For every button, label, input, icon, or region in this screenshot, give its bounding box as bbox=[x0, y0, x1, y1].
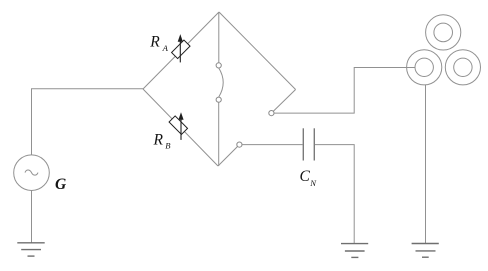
ground middle bbox=[341, 244, 368, 258]
wire bridge edge top-right bbox=[219, 12, 296, 90]
wire bridge edge bottom-left (through R_B) bbox=[143, 89, 218, 166]
wire bridge edge top-left (through R_A) bbox=[143, 12, 219, 89]
cable specimen ring left (core under test) bbox=[407, 50, 442, 85]
wire from cable sheath ring to right ground bbox=[425, 85, 427, 244]
wire from right terminal to cable core bbox=[274, 68, 415, 114]
label C_N bbox=[300, 168, 318, 188]
wire stub from bridge bottom vertex bbox=[218, 145, 239, 166]
wire stub from bridge right vertex bbox=[271, 90, 295, 114]
ground right bbox=[412, 244, 439, 258]
svg-text:G: G bbox=[55, 176, 67, 193]
svg-text:B: B bbox=[165, 141, 171, 151]
svg-text:R: R bbox=[153, 131, 164, 148]
svg-text:N: N bbox=[309, 178, 317, 188]
resistor R_B (variable, in bridge bottom-left arm) bbox=[169, 112, 187, 140]
ground left bbox=[17, 243, 44, 256]
cable specimen ring top bbox=[426, 15, 461, 50]
capacitor C_N bbox=[303, 128, 314, 160]
wire from generator bottom to left ground bbox=[31, 191, 33, 243]
label R_A bbox=[149, 34, 168, 54]
svg-text:R: R bbox=[149, 34, 160, 51]
wire from capacitor to middle ground bbox=[315, 145, 354, 244]
node bottom-vertex terminal bbox=[237, 142, 242, 147]
svg-text:A: A bbox=[162, 43, 169, 53]
wire bridge center branch lower segment bbox=[218, 102, 220, 166]
resistor R_A (variable, in bridge top-left arm) bbox=[172, 34, 190, 62]
node right-vertex terminal bbox=[269, 111, 274, 116]
node detector terminal upper bbox=[216, 63, 221, 68]
label R_B bbox=[153, 131, 172, 150]
svg-text:C: C bbox=[300, 168, 311, 185]
wire from bottom terminal to capacitor bbox=[242, 144, 303, 146]
wire bridge center branch upper segment bbox=[218, 12, 220, 63]
generator G bbox=[14, 155, 50, 191]
cable specimen ring right bbox=[445, 50, 480, 85]
wire from generator top to bridge left vertex bbox=[32, 89, 144, 155]
node detector terminal lower bbox=[216, 97, 221, 102]
switch arc between detector terminals bbox=[219, 68, 224, 97]
